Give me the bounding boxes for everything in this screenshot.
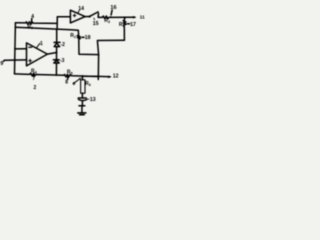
svg-text:15: 15 [93,21,99,27]
svg-text:16: 16 [110,5,116,11]
svg-text:4: 4 [31,14,34,20]
svg-text:1: 1 [40,41,43,47]
svg-text:9: 9 [73,81,76,86]
svg-text:17: 17 [130,22,136,28]
svg-text:~13: ~13 [87,97,96,103]
svg-text:7: 7 [32,76,35,82]
svg-text:18: 18 [85,35,91,41]
svg-text:12: 12 [113,74,119,80]
svg-text:14: 14 [78,6,84,12]
svg-text:8: 8 [65,79,68,85]
svg-text:9: 9 [0,61,3,67]
svg-text:-3: -3 [60,58,65,64]
svg-text:11: 11 [140,14,145,20]
svg-text:-2: -2 [61,42,66,48]
svg-text:2: 2 [34,85,37,91]
